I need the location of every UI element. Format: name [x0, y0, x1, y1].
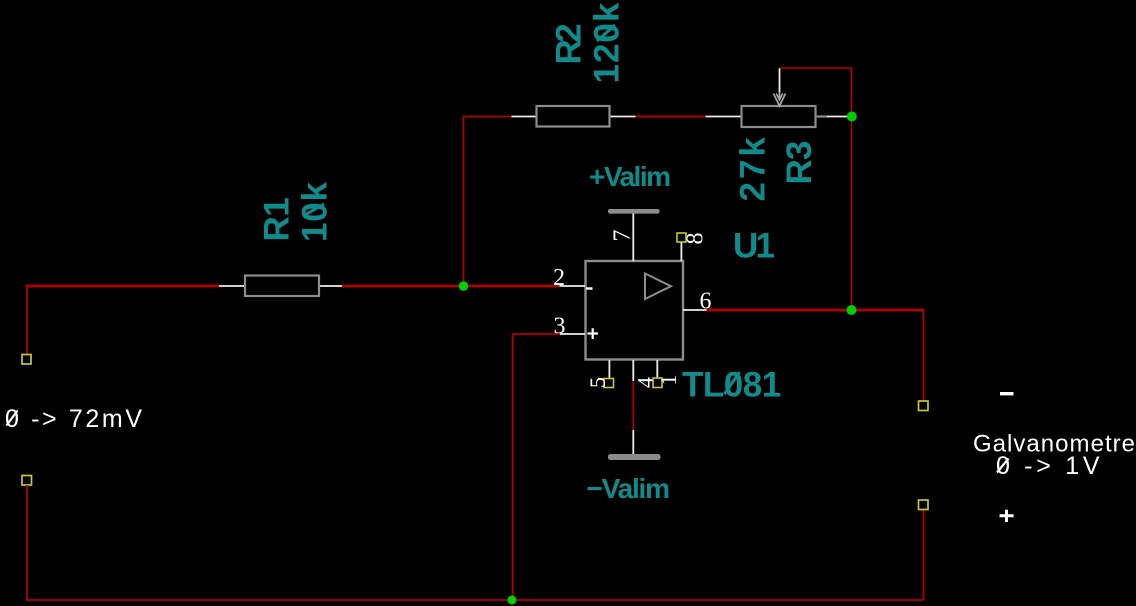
- galvanometer minus sign: [1000, 392, 1014, 395]
- slash of zero in 120k: [597, 25, 615, 41]
- wire pin3 to bottom rail: [513, 334, 560, 600]
- node C junction output: [847, 305, 857, 315]
- pin 2 stub: [560, 285, 586, 287]
- svg-text:R3: R3: [780, 141, 819, 184]
- pin 1 open square: [653, 378, 662, 388]
- port P3 galvanometer minus: [919, 401, 929, 411]
- op-amp U1 body: [586, 261, 684, 360]
- svg-text:5: 5: [585, 377, 610, 388]
- port P4 galvanometer plus: [919, 500, 929, 510]
- galvanometer plus sign: [1000, 510, 1014, 522]
- slash of zero in 72mV label: [7, 411, 18, 426]
- node B junction R3 right: [847, 112, 857, 122]
- svg-text:0 -> 72mV: 0 -> 72mV: [5, 405, 142, 433]
- pin 5 open square: [604, 379, 614, 388]
- svg-text:1: 1: [756, 226, 775, 265]
- port P2 input bottom: [22, 476, 32, 486]
- slash of zero in 1V label: [997, 459, 1009, 473]
- label R2 120k: [550, 2, 627, 84]
- port P1 input top: [22, 355, 31, 365]
- wire node A up to R2: [464, 117, 512, 287]
- wire R2 to R3: [636, 116, 706, 118]
- wire wiper to right vertical: [780, 68, 852, 310]
- node A junction: [459, 281, 469, 291]
- svg-text:10k: 10k: [296, 181, 335, 242]
- resistor R2: [512, 106, 636, 127]
- power -Valim symbol: [608, 430, 661, 460]
- svg-text:7: 7: [610, 230, 636, 242]
- pin 2 minus mark: [586, 287, 593, 289]
- wire output to galvanometer: [707, 309, 924, 312]
- pin 8 open square: [677, 233, 686, 242]
- svg-text:3: 3: [554, 314, 566, 340]
- svg-text:2: 2: [553, 265, 565, 291]
- wire R3 wiper white stub: [779, 68, 781, 92]
- wire R1 to node A: [342, 285, 560, 288]
- label 27k R3: [734, 134, 820, 201]
- svg-text:+Valim: +Valim: [589, 161, 670, 192]
- pin 5 stub: [608, 360, 610, 379]
- pin 8 stub: [680, 242, 682, 261]
- wire bottom rail: [27, 485, 924, 600]
- pin 6 stub: [683, 309, 707, 311]
- resistor R1: [219, 276, 342, 297]
- svg-text:R1: R1: [258, 198, 297, 242]
- pin 4 stub: [632, 360, 634, 381]
- svg-text:U: U: [733, 226, 758, 265]
- svg-text:120k: 120k: [588, 2, 627, 84]
- slash of zero in 10k: [303, 204, 324, 216]
- slash of zero in TL081: [725, 372, 740, 394]
- svg-text:27k: 27k: [734, 134, 773, 201]
- svg-text:−Valim: −Valim: [587, 473, 670, 504]
- svg-text:1: 1: [656, 375, 681, 386]
- label R1 10k: [258, 181, 335, 242]
- pin 1 stub: [656, 360, 658, 378]
- svg-text:R2: R2: [550, 24, 589, 65]
- power +Valim symbol: [608, 209, 660, 261]
- node D junction bottom: [508, 596, 517, 605]
- wire input top horizontal: [26, 285, 219, 288]
- pin 3 plus mark: [588, 328, 599, 339]
- potentiometer R3: [706, 92, 848, 127]
- pin 3 stub: [560, 333, 586, 335]
- wire pin4 to -Valim: [632, 381, 634, 430]
- svg-text:8: 8: [683, 233, 709, 245]
- svg-text:0 -> 1V: 0 -> 1V: [996, 452, 1103, 480]
